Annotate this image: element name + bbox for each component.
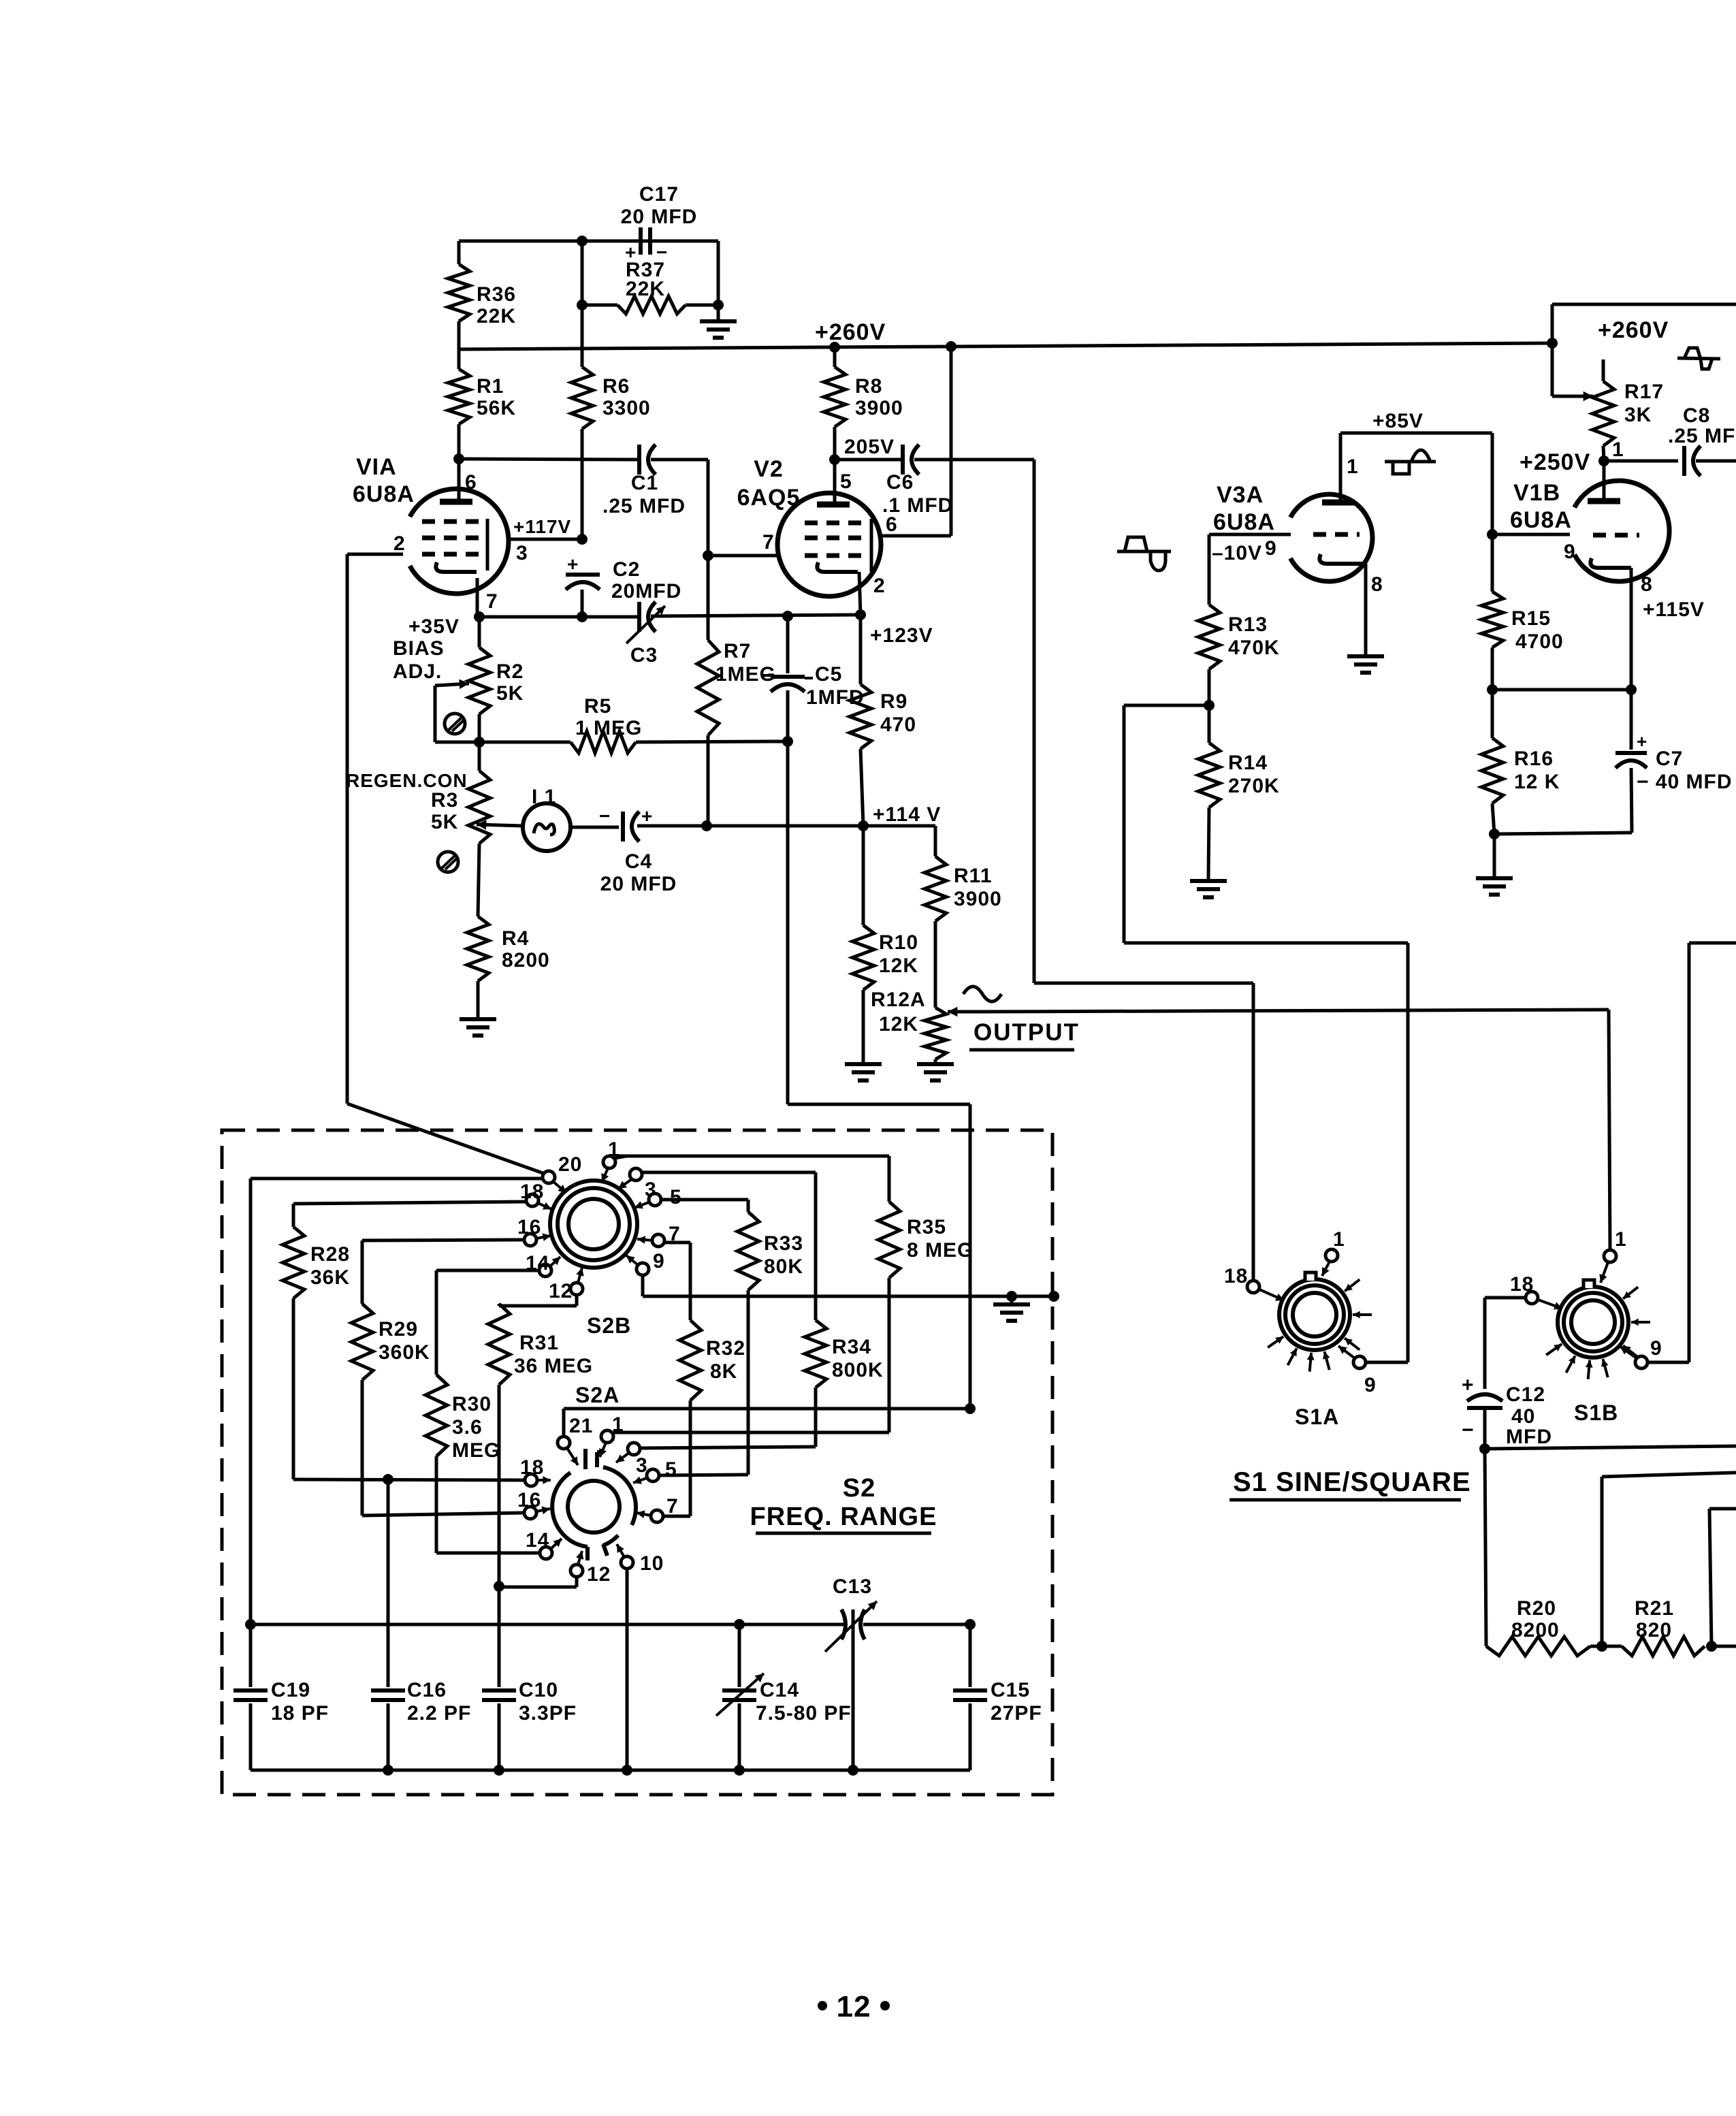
wire S2B pin12 path: [499, 1295, 577, 1306]
S2B pin 3: [618, 1168, 657, 1201]
ground below R12A: [917, 1064, 954, 1080]
svg-text:5: 5: [670, 1186, 682, 1208]
label S1A: [1295, 1405, 1339, 1429]
wire S2A pin5 row: [659, 1475, 748, 1475]
wire S2A pin12 path: [499, 1577, 577, 1587]
R2 wiper: [435, 679, 469, 742]
junction bottom bus C16: [383, 1765, 393, 1776]
svg-text:18: 18: [1510, 1273, 1534, 1296]
V1A cathode lead: [476, 578, 479, 617]
tube V1A envelope: [410, 489, 509, 594]
junction +35V: [474, 611, 485, 622]
svg-text:C5: C5: [815, 663, 842, 686]
svg-text:C2: C2: [613, 558, 640, 581]
waveform glyph +85V: [1385, 450, 1436, 474]
svg-text:7: 7: [666, 1495, 679, 1518]
wire C15 vert: [969, 1624, 972, 1687]
resistor R13: [1198, 534, 1220, 705]
svg-text:S2: S2: [843, 1474, 875, 1503]
junction R15 bottom: [1487, 684, 1498, 695]
svg-text:18 PF: 18 PF: [271, 1702, 329, 1725]
wire C4 to R7: [637, 824, 707, 828]
svg-text:V3A: V3A: [1217, 482, 1264, 508]
S2B pin 20: [543, 1153, 582, 1193]
svg-text:R28: R28: [310, 1243, 350, 1266]
label R17: [1624, 381, 1664, 426]
label C1: [602, 472, 686, 517]
svg-text:270K: 270K: [1228, 775, 1280, 797]
wire S2B pin9 stub: [641, 1275, 645, 1296]
svg-text:R20: R20: [1517, 1597, 1556, 1620]
svg-text:+85V: +85V: [1372, 410, 1424, 432]
junction R9 R10: [858, 820, 869, 831]
V3A plate: [1322, 433, 1359, 502]
ground below R14: [1190, 881, 1227, 897]
S1B pin 18: [1510, 1273, 1562, 1310]
label R36: [477, 283, 516, 327]
svg-text:7: 7: [762, 531, 775, 554]
svg-text:C8: C8: [1683, 404, 1710, 427]
svg-text:470K: 470K: [1228, 637, 1280, 659]
svg-text:1 MEG: 1 MEG: [575, 717, 642, 739]
label S1B: [1574, 1400, 1618, 1425]
label C14: [756, 1679, 852, 1725]
wire S2B pin18 row: [293, 1202, 526, 1204]
svg-text:R8: R8: [855, 375, 882, 398]
svg-text:2: 2: [873, 575, 886, 597]
resistor R21: [1602, 1637, 1705, 1656]
capacitor C5: [762, 616, 813, 692]
V2 plate: [817, 460, 852, 504]
pin 6 label V1A: [465, 471, 477, 494]
ground below V3A: [1347, 656, 1384, 673]
label V3A: [1213, 482, 1275, 535]
svg-text:I 1: I 1: [532, 786, 556, 808]
junction C17 left: [577, 236, 588, 246]
svg-text:R14: R14: [1228, 752, 1268, 774]
svg-text:+35V: +35V: [408, 615, 460, 638]
svg-text:2: 2: [393, 532, 406, 555]
svg-text:R33: R33: [764, 1232, 803, 1255]
R12A wiper output: [948, 1007, 980, 1017]
svg-text:R11: R11: [954, 865, 992, 887]
V2 grid tie: [870, 519, 873, 572]
wire S2B pin3 row: [642, 1172, 816, 1320]
resistor R28: [283, 1204, 304, 1479]
resistor R35: [878, 1156, 900, 1432]
S2A pin 16: [517, 1489, 550, 1519]
svg-text:C1: C1: [631, 472, 658, 494]
svg-text:R31: R31: [519, 1332, 559, 1354]
wire C12 to R20: [1485, 1449, 1486, 1646]
svg-text:8: 8: [1371, 573, 1383, 596]
svg-text:3900: 3900: [954, 888, 1002, 910]
wire cathode rail left: [479, 615, 637, 619]
svg-text:S1A: S1A: [1295, 1405, 1339, 1429]
svg-text:8K: 8K: [710, 1360, 737, 1383]
capacitor C8: [1604, 446, 1736, 476]
junction R21 right: [1706, 1641, 1717, 1652]
resistor R29: [351, 1240, 373, 1516]
wire S2B pin7 row: [664, 1243, 690, 1320]
svg-text:R12A: R12A: [871, 989, 926, 1011]
label S2B: [587, 1313, 631, 1338]
resistor R17 pot: [1592, 359, 1614, 461]
resistor R33: [737, 1212, 759, 1475]
junction S2A21 long vert: [965, 1403, 976, 1414]
wire S2A pin3 row: [640, 1447, 816, 1448]
wire C12 down: [1483, 1298, 1487, 1449]
svg-text:C10: C10: [519, 1679, 558, 1701]
svg-text:9: 9: [1564, 541, 1576, 563]
resistor R7: [697, 556, 719, 826]
V2 cathode: [817, 562, 858, 572]
junction bottom bus C14: [734, 1765, 745, 1776]
S2A pin 5: [633, 1458, 677, 1484]
label S1 SINE/SQUARE: [1229, 1467, 1471, 1500]
junction +250V: [1598, 455, 1609, 466]
svg-text:360K: 360K: [379, 1341, 430, 1364]
wire S2B pin5 row: [661, 1200, 748, 1212]
wire S2A pin7 row: [663, 1515, 690, 1518]
svg-text:7.5-80 PF: 7.5-80 PF: [756, 1702, 852, 1725]
ground below R37: [700, 305, 737, 338]
svg-text:−: −: [599, 805, 611, 827]
svg-text:+: +: [1637, 731, 1647, 752]
label C7: [1637, 748, 1733, 793]
wire center column C17-R37: [581, 241, 584, 349]
screw symbol R2: [445, 714, 465, 734]
S2B pin 14: [526, 1252, 560, 1277]
svg-text:12 K: 12 K: [1514, 771, 1560, 793]
svg-text:R30: R30: [452, 1393, 492, 1415]
junction ground row end: [1048, 1291, 1059, 1302]
svg-text:3.6: 3.6: [452, 1416, 483, 1439]
V1B grid row: [1593, 533, 1639, 538]
junction bottom bus pin10: [622, 1765, 632, 1776]
tube V2 envelope: [777, 493, 881, 596]
wire S2B pin14 row: [436, 1269, 539, 1272]
switch S2A rotor: [552, 1449, 636, 1560]
svg-text:R29: R29: [379, 1318, 418, 1341]
svg-text:36K: 36K: [310, 1266, 350, 1289]
svg-text:R9: R9: [880, 690, 907, 713]
label C15: [991, 1679, 1042, 1725]
wire I1 to C4: [570, 826, 619, 829]
squarewave glyph top right: [1677, 348, 1720, 369]
svg-text:800K: 800K: [832, 1359, 884, 1381]
switch S1A rotor: [1268, 1272, 1372, 1372]
svg-text:470: 470: [880, 714, 916, 736]
svg-text:9: 9: [653, 1250, 665, 1272]
svg-text:4700: 4700: [1515, 630, 1564, 653]
wire mid bus: [251, 1623, 970, 1626]
svg-text:8: 8: [1641, 573, 1653, 596]
screw symbol R3: [438, 852, 458, 872]
wire R36 to bus: [457, 321, 461, 349]
wire V2 grid row: [708, 531, 778, 556]
resistor R6: [571, 349, 593, 539]
svg-text:C14: C14: [760, 1679, 799, 1701]
svg-text:12K: 12K: [879, 955, 918, 977]
S2A pin 3: [616, 1443, 648, 1477]
ground in box: [993, 1296, 1030, 1321]
S2A pin 12: [570, 1551, 611, 1586]
V3A cathode: [1319, 554, 1366, 564]
svg-text:21: 21: [569, 1415, 593, 1437]
svg-text:6U8A: 6U8A: [353, 481, 415, 507]
label R35: [907, 1216, 974, 1262]
svg-text:40: 40: [1511, 1405, 1535, 1428]
wire C10 vert: [498, 1586, 501, 1687]
svg-text:S1B: S1B: [1574, 1400, 1618, 1425]
svg-text:20 MFD: 20 MFD: [621, 206, 698, 228]
svg-text:3900: 3900: [855, 397, 903, 419]
junction C13 bottom: [848, 1765, 858, 1776]
label +114V: [873, 803, 941, 826]
junction R37 right: [713, 300, 724, 310]
wire V1A grid down: [346, 554, 349, 1104]
junction R20 R21: [1596, 1641, 1607, 1652]
svg-text:5K: 5K: [496, 682, 524, 705]
junction ground row: [1006, 1291, 1017, 1302]
lamp I1: [523, 786, 570, 851]
svg-text:12: 12: [587, 1563, 611, 1586]
svg-text:C17: C17: [639, 183, 679, 206]
label R3: [431, 789, 458, 833]
wire left column top: [457, 241, 461, 264]
wire C19 vert: [249, 1624, 253, 1687]
svg-text:18: 18: [1224, 1265, 1248, 1287]
svg-text:–10V: –10V: [1212, 542, 1262, 564]
resistor R8: [824, 347, 846, 460]
svg-text:R1: R1: [477, 375, 504, 398]
capacitor C19: [234, 1690, 268, 1770]
junction +260V right: [1547, 338, 1558, 349]
label FREQ RANGE: [750, 1503, 937, 1533]
V2 screen row pin6: [881, 347, 951, 536]
V1A grid tie: [486, 519, 489, 571]
junction R7 bottom: [701, 820, 712, 831]
resistor R15: [1481, 534, 1503, 690]
capacitor C14 variable: [716, 1673, 764, 1770]
wire S2B pin16 row: [362, 1240, 524, 1240]
wire S2A pin14 row: [436, 1552, 540, 1555]
label R21: [1635, 1597, 1674, 1641]
wire wiper to junction: [435, 741, 479, 744]
svg-text:.1 MFD: .1 MFD: [882, 494, 953, 517]
wire ground row: [643, 1295, 1054, 1298]
R17 wiper: [1552, 343, 1593, 401]
label +123V: [870, 624, 933, 647]
svg-text:−: −: [1462, 1419, 1475, 1441]
junction V2 screen top: [946, 341, 957, 352]
svg-text:1: 1: [1615, 1228, 1627, 1251]
label +260V right: [1598, 317, 1669, 343]
junction cathode R15 row: [1626, 684, 1637, 695]
svg-text:7: 7: [486, 590, 498, 613]
resistor R11: [925, 856, 946, 1008]
svg-text:VIA: VIA: [356, 454, 397, 480]
resistor R16: [1481, 690, 1503, 834]
label R13: [1228, 613, 1280, 659]
waveform glyph left of V3A: [1117, 537, 1171, 571]
S2B pin 12: [549, 1268, 584, 1302]
wire +260V up right: [1552, 304, 1736, 343]
svg-text:S1 SINE/SQUARE: S1 SINE/SQUARE: [1233, 1467, 1471, 1497]
svg-text:R17: R17: [1624, 381, 1664, 403]
ground below R4: [460, 1019, 496, 1036]
capacitor C1: [639, 445, 656, 475]
S2A pin 10: [617, 1544, 664, 1575]
svg-text:80K: 80K: [764, 1255, 803, 1278]
label +250V: [1520, 449, 1590, 475]
label OUTPUT: [969, 1019, 1080, 1050]
svg-text:R10: R10: [879, 931, 918, 954]
svg-text:+123V: +123V: [870, 624, 933, 647]
label R16: [1514, 748, 1560, 793]
label +260V left: [815, 319, 886, 345]
label C16: [407, 1679, 471, 1725]
svg-text:C12: C12: [1506, 1383, 1545, 1406]
V2 grid rows: [805, 523, 867, 556]
label R15: [1511, 607, 1564, 653]
junction R31 S2A12: [494, 1581, 504, 1592]
label C3: [630, 644, 658, 667]
label -10V: [1212, 542, 1262, 564]
junction +123V: [855, 609, 866, 620]
wire C17 right down: [717, 241, 720, 305]
wire cathode rail right: [651, 615, 861, 616]
junction R2 bottom R5: [474, 737, 485, 748]
label R9: [880, 690, 916, 736]
wire C1 to corner: [651, 460, 708, 556]
svg-text:MEG: MEG: [452, 1439, 500, 1462]
capacitor C12: [1462, 1374, 1502, 1441]
label R5: [575, 695, 642, 739]
resistor R37: [582, 296, 718, 314]
S2A pin 18: [520, 1456, 551, 1486]
label C10: [519, 1679, 577, 1725]
svg-text:3300: 3300: [602, 397, 651, 419]
label R1: [477, 375, 516, 419]
label R20: [1511, 1597, 1560, 1641]
wire R21 up right: [1709, 1509, 1736, 1646]
resistor R9: [850, 615, 871, 826]
resistor R3 pot: [468, 742, 490, 916]
wire diagonal to S2B: [347, 1104, 545, 1174]
svg-text:1: 1: [1333, 1228, 1345, 1251]
svg-text:R7: R7: [724, 640, 751, 662]
label C12: [1506, 1383, 1552, 1448]
capacitor C3 variable: [626, 602, 665, 643]
svg-text:56K: 56K: [477, 397, 516, 419]
svg-text:+250V: +250V: [1520, 449, 1590, 475]
resistor R31: [488, 1304, 510, 1586]
label +35V: [408, 615, 460, 638]
svg-text:BIAS: BIAS: [393, 637, 445, 660]
junction pin3 R6 C2: [577, 534, 588, 545]
junction R16 bottom: [1489, 829, 1500, 839]
capacitor C6: [835, 445, 919, 475]
svg-text:C7: C7: [1656, 748, 1683, 770]
S2A pin 7: [637, 1495, 679, 1522]
svg-text:R4: R4: [502, 927, 529, 950]
S2A pin 14: [526, 1529, 562, 1559]
pin 2 wire V1A: [347, 532, 406, 555]
wire +260V bus: [459, 343, 1552, 349]
tube V3A envelope: [1291, 494, 1373, 581]
junction V1A plate: [453, 453, 464, 464]
svg-text:27PF: 27PF: [991, 1702, 1042, 1725]
svg-text:R3: R3: [431, 789, 458, 812]
label S2: [843, 1474, 875, 1503]
junction C5 rail: [782, 611, 793, 622]
wire +114V to R11: [863, 826, 935, 856]
tube V1B envelope: [1575, 481, 1669, 581]
svg-text:.25 MFD: .25 MFD: [602, 495, 686, 517]
wire R20R21 up right: [1602, 1473, 1736, 1646]
resistor R12A pot: [925, 1008, 946, 1064]
svg-text:R2: R2: [496, 660, 524, 683]
wire top loop C17 row: [459, 240, 718, 243]
label R37: [626, 259, 665, 300]
label R14: [1228, 752, 1280, 797]
svg-text:18: 18: [520, 1181, 544, 1203]
wire C1 row: [459, 459, 637, 460]
svg-text:C13: C13: [833, 1575, 872, 1598]
V2 cathode lead pin2: [859, 572, 886, 615]
svg-text:R36: R36: [477, 283, 516, 306]
svg-text:C6: C6: [886, 471, 914, 494]
ground below R10: [845, 1064, 882, 1080]
wire +114V row: [707, 824, 863, 828]
resistor R14: [1198, 705, 1220, 880]
junction C16 top: [383, 1474, 393, 1485]
label C13: [833, 1575, 872, 1598]
junction mid bus right: [965, 1619, 976, 1630]
wire S2B pin1 row: [615, 1156, 889, 1202]
svg-text:6AQ5: 6AQ5: [737, 485, 801, 511]
svg-text:8 MEG: 8 MEG: [907, 1239, 974, 1262]
label C4: [600, 850, 677, 895]
label R33: [764, 1232, 803, 1278]
label R12A: [871, 989, 926, 1036]
resistor R5: [479, 731, 793, 753]
svg-text:R35: R35: [907, 1216, 946, 1238]
svg-text:2.2 PF: 2.2 PF: [407, 1702, 471, 1725]
label R29: [379, 1318, 430, 1364]
svg-text:C3: C3: [630, 644, 658, 667]
junction C12 bottom: [1479, 1443, 1490, 1454]
label R32: [706, 1337, 745, 1383]
label C2: [611, 558, 681, 603]
svg-text:C4: C4: [625, 850, 652, 873]
svg-text:12K: 12K: [879, 1013, 918, 1036]
wire R21 row right: [1711, 1645, 1736, 1648]
svg-text:V2: V2: [754, 456, 784, 482]
svg-text:1: 1: [1347, 455, 1359, 478]
junction bottom bus C10: [494, 1765, 504, 1776]
pin 3 wire V1A +117V: [509, 516, 582, 564]
svg-text:205V: 205V: [844, 436, 895, 458]
switch S1B rotor: [1546, 1280, 1650, 1379]
junction V2 grid: [703, 550, 713, 561]
S1A pin 1: [1322, 1228, 1345, 1276]
svg-text:FREQ. RANGE: FREQ. RANGE: [750, 1503, 937, 1531]
svg-text:6U8A: 6U8A: [1213, 509, 1275, 535]
svg-text:C15: C15: [991, 1679, 1030, 1701]
